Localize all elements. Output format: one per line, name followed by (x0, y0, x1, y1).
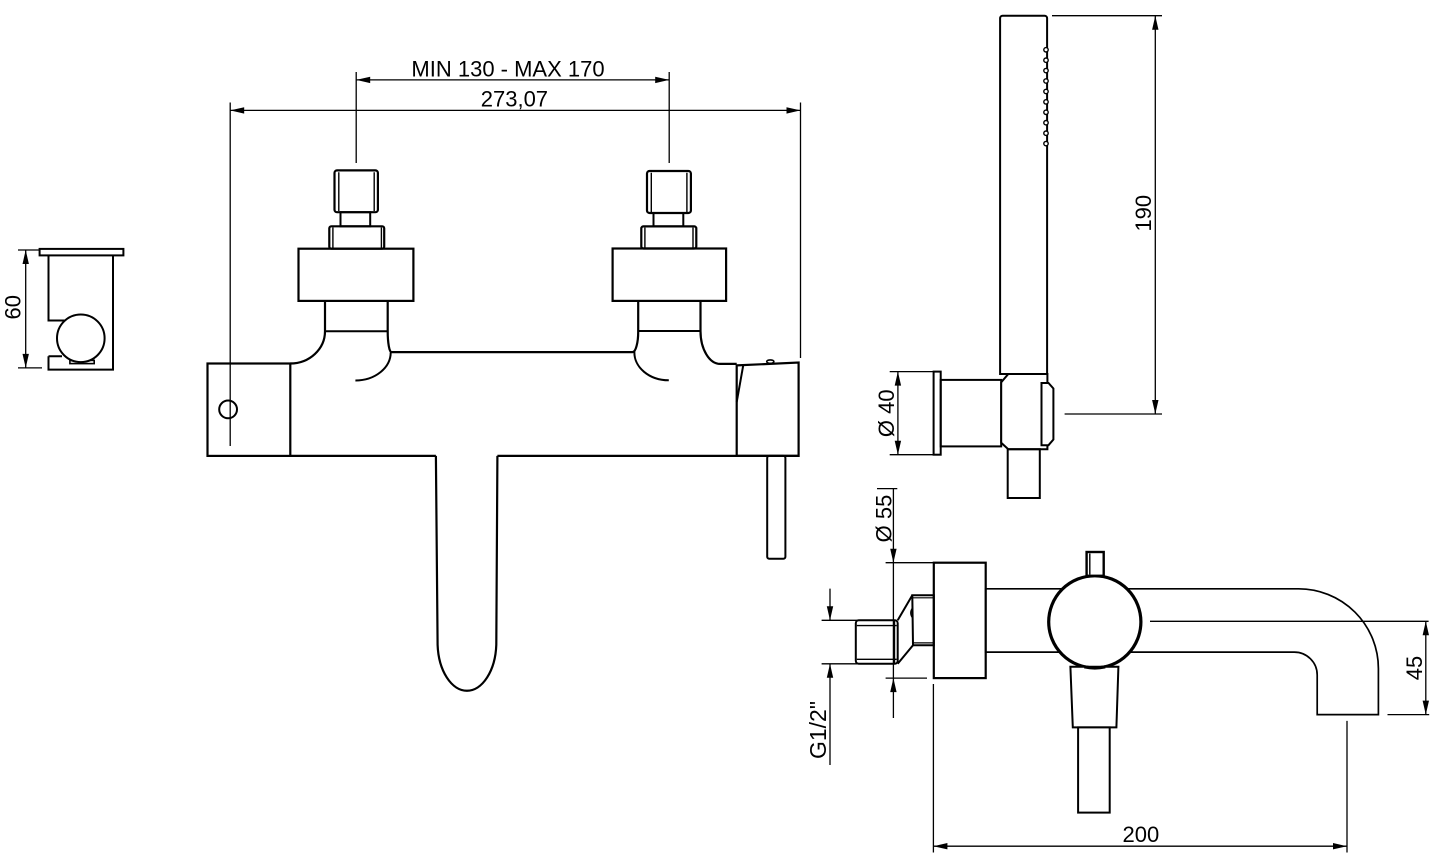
neck joint line valve 1 (325, 330, 388, 332)
diverter lever line (737, 365, 744, 402)
left end cap (208, 364, 291, 456)
dim Ø55 (877, 489, 934, 718)
valve 2 collar (641, 226, 696, 248)
dim 190 (1052, 16, 1162, 414)
dim 200 (933, 684, 1347, 853)
hose tube below diverter (767, 456, 785, 559)
diverter knob tip (767, 360, 774, 363)
side-view ball (57, 315, 105, 363)
handle cone (1070, 667, 1118, 728)
arrows 45 (1423, 621, 1429, 635)
arrows 273,07 (230, 107, 244, 113)
sphere bottom arc (1084, 667, 1105, 668)
svg-text:MIN 130 - MAX 170: MIN 130 - MAX 170 (411, 57, 604, 82)
side-view feet (70, 360, 94, 363)
svg-text:273,07: 273,07 (481, 87, 548, 112)
wall flange (934, 563, 986, 678)
tube and spout (986, 589, 1379, 715)
body top with valve necks (290, 301, 736, 364)
side-view body outline (49, 255, 114, 369)
fillet arc right valve (634, 352, 668, 381)
wand nozzle dots (1044, 48, 1048, 146)
dim 273,07 (230, 103, 800, 447)
handle rod (1078, 727, 1110, 812)
neck joint line valve 2 (638, 330, 700, 332)
dim 60 (18, 250, 42, 368)
svg-text:45: 45 (1402, 656, 1427, 680)
hose connector (1008, 449, 1040, 498)
arrows Ø40 (895, 372, 901, 386)
mixing sphere (1049, 576, 1141, 668)
valve 1 knob (335, 170, 378, 212)
valve 2 stem (654, 213, 684, 226)
arrows 200 (933, 843, 947, 849)
arrows 190 (1152, 16, 1158, 30)
svg-text:60: 60 (1, 295, 26, 319)
cartridge cap (1087, 552, 1104, 576)
spout (436, 456, 498, 691)
threaded nipple (856, 620, 898, 664)
svg-text:Ø 40: Ø 40 (874, 389, 899, 437)
shower wand (1000, 16, 1047, 374)
valve 1 flange (299, 249, 414, 301)
valve 2 flange (613, 249, 727, 301)
cap hole (219, 401, 237, 419)
dim Ø40 (890, 372, 934, 455)
diverter block (737, 363, 799, 456)
svg-text:G1/2": G1/2" (805, 701, 831, 759)
hex section (912, 595, 934, 645)
side-view top plate (40, 249, 124, 256)
arrows Ø55 (890, 549, 896, 563)
svg-text:190: 190 (1131, 195, 1156, 232)
dim G1/2 (822, 589, 857, 765)
holder grip (1001, 374, 1047, 449)
svg-text:200: 200 (1123, 822, 1160, 847)
arrows MIN/MAX (356, 77, 370, 83)
body bottom edge (290, 455, 798, 457)
dim MIN 130 - MAX 170 (356, 72, 669, 163)
dim 45 (1150, 621, 1429, 714)
arrows G1/2 (827, 606, 833, 620)
arrows 60 (23, 250, 29, 264)
svg-text:Ø 55: Ø 55 (872, 495, 897, 543)
fillet arc left valve (355, 352, 390, 380)
hex arc detail (911, 608, 913, 619)
holder cradle (1042, 383, 1054, 445)
holder wall plate (934, 372, 941, 455)
valve 1 collar (329, 226, 384, 248)
holder cylinder (941, 380, 1002, 447)
valve 1 stem (341, 212, 371, 226)
cone to hex (898, 595, 913, 664)
valve 2 knob (647, 171, 691, 213)
